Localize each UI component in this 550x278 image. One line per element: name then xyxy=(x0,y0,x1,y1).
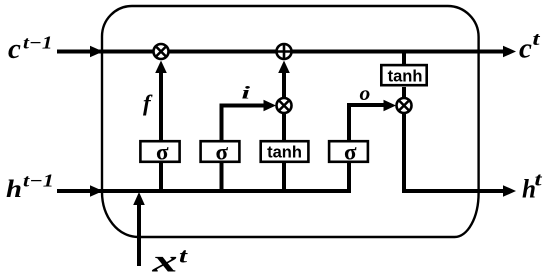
wire tanh-top to mult3 xyxy=(402,87,406,97)
wire xt input vertical xyxy=(137,203,141,266)
arrowhead xt into h-line xyxy=(133,192,145,205)
wire c-line (cell state, y=51.5) xyxy=(57,50,505,54)
LSTM cell boundary box xyxy=(102,6,479,237)
svg-text:h: h xyxy=(6,176,22,203)
wire mult2 to add xyxy=(282,71,286,97)
arrowhead i into mult2 xyxy=(264,100,277,112)
svg-text:c: c xyxy=(8,33,21,65)
arrowhead c-line into box xyxy=(90,46,103,58)
svg-text:tanh: tanh xyxy=(388,68,423,86)
svg-text:t−1: t−1 xyxy=(23,33,53,53)
wire o gate elbow xyxy=(349,105,387,140)
svg-text:f: f xyxy=(143,91,153,116)
node mult3 (output multiply) xyxy=(397,98,412,113)
wire o stub below sigma3 xyxy=(347,163,351,193)
arrowhead o into mult3 xyxy=(384,100,397,112)
svg-text:t: t xyxy=(179,244,189,268)
wire candidate tanh to mult2 xyxy=(282,114,286,140)
gate tanh-top (cell output squash) xyxy=(381,65,426,85)
arrowhead c-line output ct xyxy=(503,46,516,58)
svg-text:σ: σ xyxy=(156,139,169,164)
arrowhead into add xyxy=(278,61,290,74)
svg-text:t: t xyxy=(535,170,543,191)
svg-text:σ: σ xyxy=(344,139,357,164)
svg-text:t: t xyxy=(533,29,541,50)
node mult1 (forget multiply) xyxy=(154,44,169,59)
gate sigma3 (output) xyxy=(329,139,368,164)
wire h-line (hidden state, y=191) xyxy=(57,189,348,193)
wire f gate vertical xyxy=(159,70,163,140)
svg-text:c: c xyxy=(519,33,532,65)
gate tanh-bottom (candidate) xyxy=(261,141,309,162)
svg-text:x: x xyxy=(151,243,178,278)
wire i gate elbow xyxy=(222,106,268,141)
gate sigma1 (forget) xyxy=(140,139,179,164)
svg-text:o: o xyxy=(360,81,371,105)
wire c-line branch down to tanh-top xyxy=(402,52,406,65)
arrowhead ht output xyxy=(503,185,516,197)
wire stub below tanh-bottom xyxy=(282,163,286,193)
wire i stub below sigma2 xyxy=(220,163,224,193)
gate sigma2 (input) xyxy=(201,139,240,164)
node mult2 (input multiply) xyxy=(277,98,292,113)
wire output elbow mult3 down and right to ht xyxy=(404,114,505,191)
arrowhead h-line into box xyxy=(90,185,103,197)
wire f stub below sigma1 xyxy=(159,163,163,193)
node add (cell state sum) xyxy=(277,44,292,59)
svg-text:t−1: t−1 xyxy=(23,171,54,191)
svg-text:σ: σ xyxy=(216,139,229,164)
svg-text:tanh: tanh xyxy=(267,144,302,162)
arrowhead f into mult1 xyxy=(155,61,167,74)
svg-text:i: i xyxy=(242,83,251,103)
